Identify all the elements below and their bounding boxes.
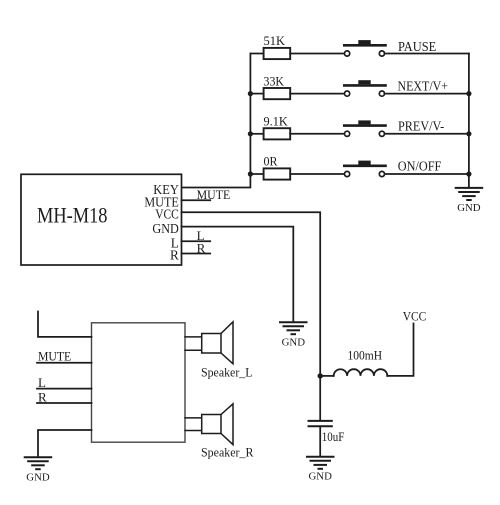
wire L stub	[182, 228, 211, 243]
wire speaker R top	[185, 417, 202, 419]
node junction left bus row3	[248, 131, 253, 136]
svg-text:GND: GND	[282, 336, 306, 348]
wire R stub	[182, 240, 211, 255]
wire right bus	[468, 54, 470, 188]
svg-text:33K: 33K	[264, 73, 285, 88]
wire amp top-left input	[38, 312, 92, 337]
node junction left bus row2	[248, 91, 253, 96]
speaker LS2 Speaker_R	[201, 404, 254, 460]
node junction right bus row3	[466, 131, 471, 136]
svg-text:R: R	[170, 248, 179, 263]
svg-text:VCC: VCC	[155, 207, 179, 222]
resistor R2 33K	[264, 73, 291, 99]
wire row2 left stub	[250, 93, 263, 95]
resistor R1 51K	[264, 33, 291, 59]
wire row4 resistor to button	[290, 173, 344, 175]
svg-text:Speaker_L: Speaker_L	[201, 365, 253, 380]
wire row3 resistor to button	[290, 133, 344, 135]
ground buttons	[456, 188, 483, 214]
resistor R4 0R	[264, 154, 291, 180]
svg-text:MUTE: MUTE	[197, 187, 231, 202]
pushbutton S4 ON/OFF	[344, 159, 441, 177]
wire VCC net from module to filter junction	[182, 212, 321, 376]
wire speaker R bottom	[185, 430, 202, 432]
resistor R3 9.1K	[264, 114, 291, 140]
svg-text:GND: GND	[152, 221, 178, 236]
wire junction to capacitor	[319, 376, 321, 421]
svg-text:51K: 51K	[264, 33, 286, 48]
svg-text:PAUSE: PAUSE	[398, 39, 436, 54]
wire speaker L top	[185, 336, 202, 338]
wire row2 resistor to button	[290, 93, 344, 95]
wire amp L input	[37, 375, 92, 390]
svg-text:L: L	[38, 375, 46, 390]
svg-text:100mH: 100mH	[348, 348, 383, 362]
wire MUTE stub	[182, 187, 231, 202]
svg-text:GND: GND	[26, 472, 50, 484]
wire row1 resistor to button	[290, 53, 344, 55]
node junction right bus row4	[466, 171, 471, 176]
wire amp ground	[38, 430, 92, 457]
ground capacitor	[307, 457, 334, 483]
op-amp U1 MH-M18 module	[21, 174, 182, 265]
svg-text:PREV/V-: PREV/V-	[398, 118, 444, 133]
node filter junction	[318, 373, 323, 378]
ground amplifier	[25, 457, 52, 483]
wire row4 button to right bus	[385, 173, 469, 175]
wire row1 left stub	[250, 53, 263, 55]
pushbutton S3 PREV/V-	[344, 118, 444, 136]
svg-text:GND: GND	[457, 202, 481, 214]
wire row1 button to right bus	[385, 53, 469, 55]
wire row3 button to right bus	[385, 133, 469, 135]
wire row3 left stub	[250, 133, 263, 135]
node junction right bus row2	[466, 91, 471, 96]
svg-text:GND: GND	[308, 471, 332, 483]
node junction left bus row4	[248, 171, 253, 176]
wire junction to inductor	[320, 375, 334, 377]
amplifier U2	[92, 323, 186, 442]
wire GND net from module	[182, 227, 294, 322]
pushbutton S2 NEXT/V+	[344, 79, 448, 97]
pushbutton S1 PAUSE	[344, 39, 436, 56]
svg-text:R: R	[38, 389, 47, 404]
svg-text:ON/OFF: ON/OFF	[398, 159, 442, 174]
wire inductor to VCC	[387, 324, 413, 376]
svg-text:Speaker_R: Speaker_R	[201, 445, 254, 460]
svg-text:0R: 0R	[264, 154, 278, 169]
wire speaker L bottom	[185, 349, 202, 351]
svg-text:10uF: 10uF	[322, 430, 345, 444]
wire row2 button to right bus	[385, 93, 469, 95]
wire row4 left stub	[250, 173, 263, 175]
svg-text:NEXT/V+: NEXT/V+	[398, 79, 449, 94]
svg-text:VCC: VCC	[403, 310, 427, 324]
wire amp R input	[37, 389, 92, 404]
inductor L1 100mH	[334, 348, 388, 376]
svg-text:MH-M18: MH-M18	[37, 202, 108, 227]
capacitor C1 10uF	[309, 421, 345, 444]
svg-text:R: R	[197, 240, 206, 255]
ground module	[280, 322, 307, 348]
svg-text:9.1K: 9.1K	[264, 114, 289, 129]
speaker LS1 Speaker_L	[201, 322, 253, 380]
wire KEY net: MH-M18 KEY pin to resistor bus	[182, 54, 251, 188]
wire amp MUTE input	[37, 348, 92, 363]
svg-text:MUTE: MUTE	[38, 348, 71, 363]
wire capacitor to ground	[319, 426, 321, 456]
